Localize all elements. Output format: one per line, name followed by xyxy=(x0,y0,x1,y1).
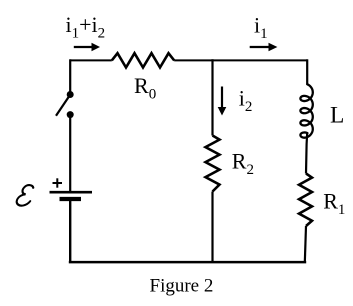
wire middle branch lower segment xyxy=(211,192,213,263)
svg-text:R0: R0 xyxy=(134,73,156,103)
resistor R2 xyxy=(206,136,220,192)
wire inductor to R1 xyxy=(306,133,307,173)
svg-text:L: L xyxy=(330,102,344,128)
label EMF script E xyxy=(16,185,34,206)
svg-text:i2: i2 xyxy=(239,85,253,115)
svg-text:i1: i1 xyxy=(254,12,268,42)
wire middle branch upper segment xyxy=(211,59,213,135)
current arrow i1+i2 xyxy=(74,43,100,52)
svg-text:i1+i2: i1+i2 xyxy=(66,12,106,42)
wire left vertical upper segment xyxy=(69,59,71,94)
resistor R1 xyxy=(299,174,312,227)
wire right branch lower segment xyxy=(305,226,306,263)
current arrow i1 xyxy=(250,43,278,52)
resistor R0 xyxy=(112,53,174,67)
svg-text:Figure 2: Figure 2 xyxy=(150,276,214,297)
current arrow i2 xyxy=(218,87,227,116)
wire top-right horizontal segment xyxy=(174,59,307,61)
switch blade xyxy=(56,95,70,116)
inductor L xyxy=(300,84,312,137)
switch upper contact dot xyxy=(67,91,74,98)
wire right branch upper segment xyxy=(306,59,308,85)
wire top-left horizontal segment xyxy=(70,59,112,61)
wire battery to bottom xyxy=(69,201,71,263)
svg-text:R1: R1 xyxy=(323,188,345,218)
wire switch to battery xyxy=(69,115,71,191)
battery EMF source xyxy=(50,192,93,199)
switch lower contact dot xyxy=(67,111,74,118)
battery plus sign xyxy=(53,178,63,187)
wire bottom horizontal xyxy=(69,261,306,264)
svg-text:R2: R2 xyxy=(232,148,254,178)
